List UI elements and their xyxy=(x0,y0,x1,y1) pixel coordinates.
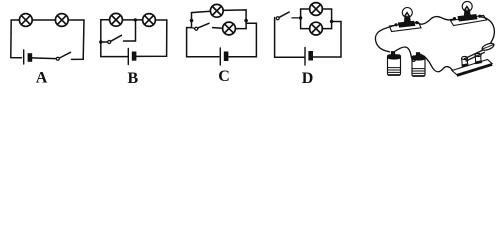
wire battery 2 to switch xyxy=(421,54,453,71)
lamp L2 (C) xyxy=(223,22,236,35)
wire lamp TL to battery 1 xyxy=(375,26,394,52)
post base shadows xyxy=(462,60,483,67)
wire lamp TR to switch xyxy=(481,17,494,45)
lamp L1 (B) xyxy=(110,13,123,26)
bulb screw base TR xyxy=(464,11,471,16)
switch S (C) xyxy=(192,23,209,30)
node dot right (C) xyxy=(244,19,248,23)
battery (B) xyxy=(128,49,136,65)
terminal knob TL-left xyxy=(394,23,397,26)
switch branch wire (B) xyxy=(102,22,136,43)
switch S (B) xyxy=(108,35,122,43)
svg-text:B: B xyxy=(127,70,138,87)
wire lamp TL to lamp TR xyxy=(418,17,453,25)
switch S (A) xyxy=(56,52,70,60)
lamp socket holder TR xyxy=(458,15,477,22)
bulb screw base TL xyxy=(404,17,411,22)
node dot top (B) xyxy=(134,18,137,21)
lamp socket holder TL xyxy=(398,21,415,27)
wire loop C xyxy=(187,10,257,57)
knife switch base front edge xyxy=(457,64,493,77)
node dot merge (D) xyxy=(330,20,333,23)
node dot left (C) xyxy=(190,19,194,23)
lamp branch wire (C) xyxy=(213,28,246,29)
lamp L1 (A) xyxy=(19,14,32,27)
wire loop A xyxy=(11,20,84,59)
lamp L1 (D) xyxy=(310,3,323,16)
battery (C) xyxy=(220,48,228,65)
wire loop B xyxy=(101,20,167,57)
wire loop D xyxy=(275,18,341,58)
wire battery 1 to battery 2 xyxy=(394,47,417,61)
battery (A) xyxy=(24,50,33,64)
knife switch post 2 xyxy=(475,53,481,63)
lamp L2 (B) xyxy=(143,14,156,27)
knife lever and handle xyxy=(465,42,495,61)
knife switch base plate xyxy=(452,60,492,75)
knife switch post 1 xyxy=(462,56,468,66)
terminal knob TR-left xyxy=(453,17,456,20)
fork wires (D) xyxy=(301,9,332,29)
battery (D) xyxy=(305,48,313,66)
bulb TL xyxy=(402,8,412,18)
terminal knob TL-right xyxy=(415,21,418,24)
terminal knob TR-right xyxy=(478,15,481,18)
lamp holder base plate TR xyxy=(451,15,487,25)
node dot left (B) xyxy=(99,40,102,43)
lamp L2 (A) xyxy=(55,14,68,27)
svg-text:C: C xyxy=(218,68,230,85)
lamp L2 (D) xyxy=(310,22,323,35)
bulb TR xyxy=(462,1,472,11)
battery cell 1 xyxy=(388,51,401,75)
lamp holder base plate TL xyxy=(390,22,422,31)
battery cell 2 xyxy=(412,52,425,76)
svg-text:D: D xyxy=(302,70,314,87)
svg-text:A: A xyxy=(36,70,48,87)
switch S (D) xyxy=(276,12,299,20)
lamp L1 (C) xyxy=(210,4,223,17)
node dot fork (D) xyxy=(299,16,302,19)
